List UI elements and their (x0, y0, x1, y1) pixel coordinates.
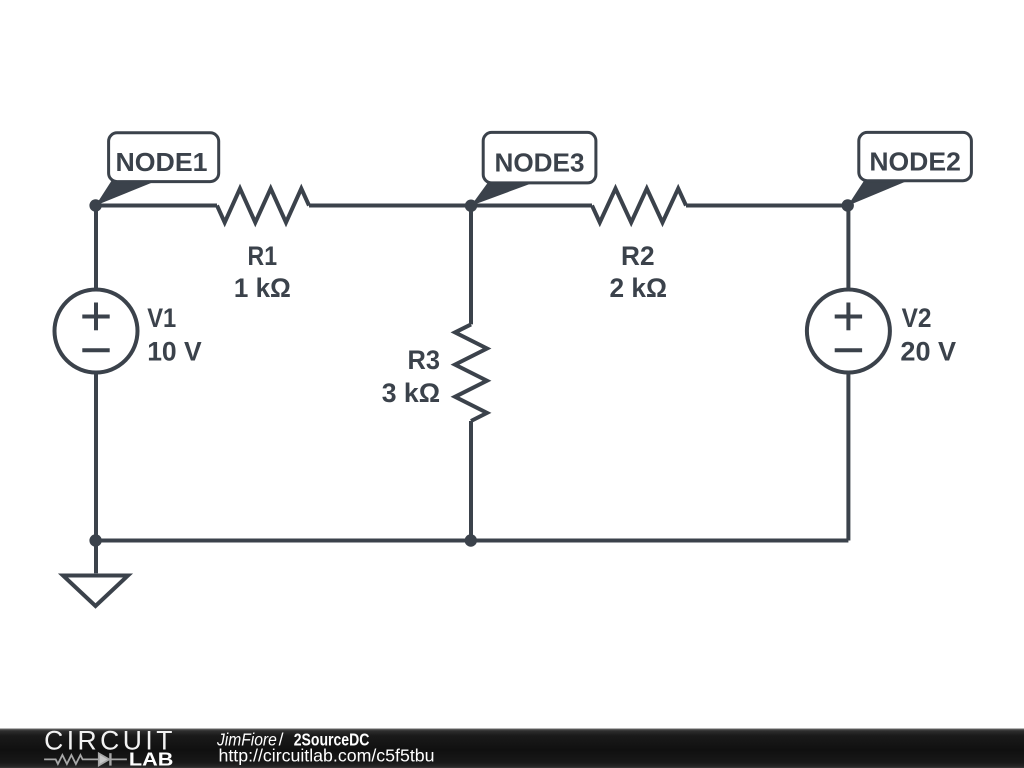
node NODE2 callout (848, 132, 972, 205)
resistor R3 (455, 324, 487, 421)
junction dot bottom center (465, 534, 477, 546)
node NODE2 junction dot (842, 199, 854, 211)
svg-text:V2: V2 (902, 303, 932, 333)
resistor R1 (217, 189, 309, 223)
ground (63, 576, 128, 607)
node NODE1 callout (96, 133, 219, 206)
CircuitLab logo resistor-diode squiggle (44, 753, 127, 765)
svg-text:10 V: 10 V (147, 337, 202, 367)
wire ground stem (94, 541, 98, 574)
wire R3 to bottom node (469, 421, 473, 541)
wire node1 to V1 top (94, 206, 98, 292)
svg-text:1 kΩ: 1 kΩ (234, 273, 291, 303)
resistor R2 (592, 189, 686, 223)
svg-text:NODE3: NODE3 (495, 148, 585, 178)
junction dot bottom left (89, 534, 101, 546)
node NODE3 junction dot (465, 200, 477, 212)
svg-text:2 kΩ: 2 kΩ (610, 273, 668, 303)
svg-text:3 kΩ: 3 kΩ (382, 378, 440, 408)
voltage source V2 (807, 290, 890, 373)
wire node3 to R3 (469, 206, 473, 325)
wire V1 bottom to ground node (94, 371, 98, 541)
node NODE1 junction dot (89, 199, 101, 211)
svg-text:V1: V1 (147, 303, 176, 333)
wire node2 to V2 top (846, 206, 850, 292)
svg-text:NODE1: NODE1 (116, 147, 208, 177)
wire node3 to R2 (471, 204, 592, 208)
node NODE3 callout (471, 132, 596, 205)
wire bottom rail (96, 539, 849, 543)
wire R1 to node3 (309, 204, 471, 208)
footer bar (0, 729, 1024, 768)
svg-text:20 V: 20 V (900, 337, 956, 367)
svg-text:R1: R1 (248, 241, 278, 271)
svg-text:http://circuitlab.com/c5f5tbu: http://circuitlab.com/c5f5tbu (219, 746, 435, 766)
wire node1 to R1 (96, 204, 217, 208)
svg-text:NODE2: NODE2 (869, 147, 961, 177)
voltage source V1 (55, 290, 138, 373)
wire V2 bottom to bottom rail (846, 371, 850, 541)
svg-text:LAB: LAB (129, 750, 174, 768)
svg-text:R3: R3 (408, 345, 441, 375)
wire R2 to node2 (686, 204, 848, 208)
svg-text:R2: R2 (621, 241, 655, 271)
